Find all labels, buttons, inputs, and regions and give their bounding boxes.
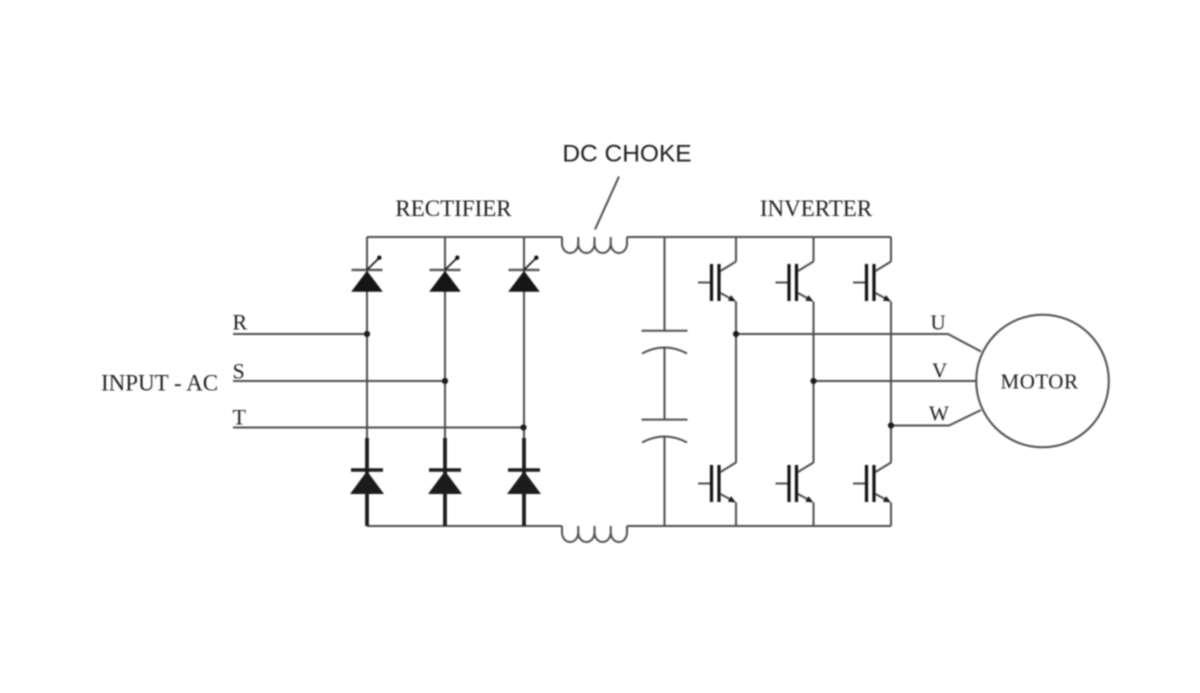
svg-text:T: T — [233, 405, 247, 430]
svg-text:W: W — [929, 402, 949, 426]
svg-text:U: U — [931, 311, 946, 335]
svg-text:INVERTER: INVERTER — [760, 196, 873, 221]
svg-text:MOTOR: MOTOR — [1001, 370, 1079, 394]
svg-text:DC CHOKE: DC CHOKE — [562, 141, 691, 168]
svg-text:R: R — [233, 310, 248, 335]
svg-text:INPUT - AC: INPUT - AC — [101, 371, 218, 396]
svg-text:V: V — [932, 359, 947, 383]
svg-text:RECTIFIER: RECTIFIER — [395, 196, 512, 221]
svg-text:S: S — [233, 359, 245, 384]
